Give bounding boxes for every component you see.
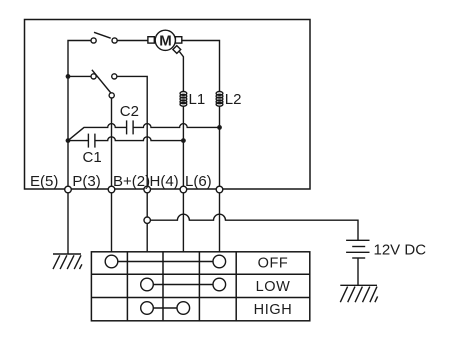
terminal P(3) bbox=[108, 186, 115, 193]
wire tap to table bbox=[146, 223, 148, 251]
node C1 end on L1 wire bbox=[181, 138, 186, 143]
ground right bbox=[340, 285, 377, 302]
contacts LOW row bbox=[141, 278, 226, 291]
wire C1 net bbox=[68, 137, 183, 141]
wire motor brush to L1 top bbox=[180, 52, 184, 92]
wire B+ to tap bbox=[146, 193, 148, 217]
svg-text:OFF: OFF bbox=[258, 256, 289, 272]
svg-text:B+(2): B+(2) bbox=[113, 173, 150, 190]
terminal B+(2) bbox=[144, 186, 151, 193]
enclosure box bbox=[25, 20, 311, 190]
node C2 end on L2 wire bbox=[217, 125, 222, 130]
switch S1 bbox=[91, 32, 117, 43]
inductor L1 bbox=[180, 92, 187, 107]
wire L to table bbox=[219, 193, 221, 252]
svg-text:LOW: LOW bbox=[256, 279, 291, 295]
wire battery to ground bbox=[357, 258, 359, 285]
wire P to table bbox=[111, 193, 113, 252]
terminal H(4) bbox=[180, 186, 187, 193]
switch S2 bbox=[91, 70, 117, 98]
svg-text:L2: L2 bbox=[225, 91, 242, 108]
switch position table bbox=[91, 252, 309, 321]
motor M bbox=[148, 30, 182, 53]
wire L1 to H terminal bbox=[182, 106, 184, 186]
wire S1 to motor bbox=[117, 40, 148, 42]
svg-text:HIGH: HIGH bbox=[254, 302, 293, 318]
svg-text:C1: C1 bbox=[83, 149, 102, 166]
svg-text:L(6): L(6) bbox=[185, 173, 212, 190]
svg-text:C2: C2 bbox=[120, 103, 139, 120]
wire bus to S2 bbox=[68, 75, 91, 77]
inductor L2 bbox=[216, 92, 223, 107]
wire motor to L2 top bbox=[182, 41, 220, 92]
wire battery feed bbox=[150, 214, 358, 240]
wire S2 lower contact to P terminal bbox=[111, 98, 113, 186]
contacts HIGH row bbox=[141, 302, 190, 315]
capacitor C2 bbox=[127, 120, 134, 134]
connector tap on B+ bbox=[144, 217, 150, 223]
terminal L(6) bbox=[216, 186, 223, 193]
svg-text:M: M bbox=[159, 33, 172, 50]
svg-text:P(3): P(3) bbox=[72, 173, 100, 190]
wire C2 net bbox=[68, 124, 220, 141]
wire L2 to L terminal bbox=[219, 106, 221, 186]
battery BT1 12V bbox=[346, 240, 369, 258]
capacitor C1 bbox=[88, 134, 95, 148]
svg-text:H(4): H(4) bbox=[150, 173, 179, 190]
svg-text:12V DC: 12V DC bbox=[374, 242, 427, 259]
terminal E(5) bbox=[65, 186, 72, 193]
wire H to table bbox=[182, 193, 184, 252]
svg-text:L1: L1 bbox=[189, 91, 206, 108]
node C1 branch bbox=[66, 138, 71, 143]
node S2 branch bbox=[66, 74, 71, 79]
wire E to ground bbox=[67, 193, 69, 254]
wire S2 right contact to B+ terminal bbox=[117, 76, 147, 186]
svg-text:E(5): E(5) bbox=[30, 173, 58, 190]
ground left bbox=[53, 254, 82, 269]
wire left bus E line bbox=[68, 41, 91, 187]
contacts OFF row bbox=[105, 255, 225, 268]
